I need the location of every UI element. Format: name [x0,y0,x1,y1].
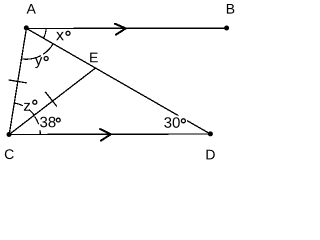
tick on AC [9,80,27,83]
label z [24,103,30,111]
wire CD (ray C to D) [9,133,210,136]
label y [35,57,42,68]
wire AC [9,28,26,134]
label E [90,53,98,63]
arrow on AB [115,24,126,35]
label B [227,4,234,14]
tick on CE [45,92,57,107]
wire AB (ray A to B) [26,27,226,29]
white mask under 30 deg label [164,115,187,128]
degree ring of y [44,57,48,61]
arrow on CD [100,129,111,141]
arc angle x at A [43,28,46,38]
node B dot [224,26,229,31]
arc angle z at C piece 1 [15,103,23,106]
degree ring of x [66,31,70,35]
node D dot [208,131,213,136]
arc angle 38 at C piece 1 [35,116,39,124]
wire AD through E [26,28,210,134]
label C [5,149,14,159]
arc angle 38 at C piece 2 [39,130,41,134]
arc angle z at C piece 2 [29,110,34,116]
wire CE [9,68,95,134]
node A dot [24,25,29,30]
arc angle y at A [43,44,53,54]
label x [56,32,64,40]
degree ring of 38 [56,118,60,122]
node C dot [7,132,12,137]
label D [206,150,214,160]
arc angle y at A piece 2 [21,56,41,60]
degree ring of 30 [181,119,185,123]
label 30 [164,117,180,128]
label A [27,4,36,14]
label 38 [40,117,55,128]
degree ring of z [33,100,37,104]
